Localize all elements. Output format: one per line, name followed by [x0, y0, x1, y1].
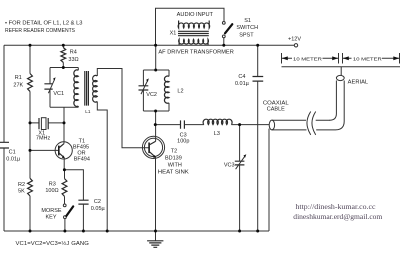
capacitor C4 — [257, 45, 259, 76]
wire emitter branch to R3 — [64, 170, 66, 204]
svg-text:http://dinesh-kumar.co.cc: http://dinesh-kumar.co.cc — [296, 202, 377, 211]
svg-text:AERIAL: AERIAL — [348, 80, 368, 86]
svg-text:27K: 27K — [13, 82, 23, 88]
svg-text:VC1: VC1 — [53, 91, 64, 97]
aerial tube top — [336, 75, 344, 80]
transistor T2 — [142, 136, 164, 158]
svg-text:10 METER: 10 METER — [353, 56, 382, 62]
svg-text:AUDIO INPUT: AUDIO INPUT — [177, 12, 214, 18]
aerial tube elbow — [330, 81, 337, 121]
svg-text:BD139: BD139 — [165, 156, 182, 162]
svg-text:R2: R2 — [18, 182, 25, 188]
capacitor C3 — [181, 120, 185, 128]
resistor R1 — [28, 74, 33, 92]
wire collector branch T1 — [63, 107, 65, 143]
svg-text:X1: X1 — [170, 31, 177, 37]
node dots — [29, 44, 260, 233]
svg-text:0.01µ: 0.01µ — [235, 81, 250, 87]
svg-text:CABLE: CABLE — [267, 107, 285, 113]
resistor R4 — [62, 45, 64, 67]
svg-text:KEY: KEY — [45, 215, 56, 221]
wire tank2 box — [143, 70, 169, 111]
dimension arrows 10 meter — [282, 53, 400, 64]
coax break — [307, 112, 316, 135]
wire emitter to C2 — [65, 170, 84, 200]
inductor audio secondary — [179, 39, 209, 45]
svg-text:+12V: +12V — [288, 36, 301, 42]
ground — [147, 241, 163, 248]
wire top rail — [4, 44, 294, 46]
wire bottom rail — [4, 230, 269, 232]
wire T1 base lead — [30, 149, 59, 151]
svg-text:10 METER: 10 METER — [293, 56, 322, 62]
switch S1 — [222, 22, 225, 25]
svg-text:R3: R3 — [49, 182, 56, 188]
wire spine to tank2 — [155, 45, 157, 70]
node +12V terminal — [294, 44, 297, 47]
inductor L2 — [168, 70, 170, 76]
svg-text:S1: S1 — [244, 18, 251, 24]
svg-text:AF DRIVER TRANSFORMER: AF DRIVER TRANSFORMER — [158, 49, 233, 55]
capacitor VC3 — [239, 125, 241, 161]
wire left edge — [3, 45, 5, 142]
wire coax braid riser — [268, 129, 270, 231]
svg-text:VC3: VC3 — [224, 163, 235, 169]
wire spine tank2 to T2 — [155, 111, 157, 142]
capacitor C2 — [78, 200, 88, 204]
wire L1 sec top lead to T2 base — [97, 69, 149, 148]
crystal X1 — [39, 118, 48, 129]
svg-text:SPST: SPST — [239, 32, 254, 38]
svg-text:COAXIAL: COAXIAL — [263, 101, 289, 107]
svg-text:5K: 5K — [18, 189, 25, 195]
svg-text:C4: C4 — [238, 74, 245, 80]
resistor R2 — [28, 178, 33, 196]
morse key — [63, 204, 66, 207]
svg-text:VC1=VC2=VC3=½J GANG: VC1=VC2=VC3=½J GANG — [16, 240, 90, 247]
wire transformer box — [156, 8, 225, 45]
transistor T1 — [55, 142, 72, 159]
inductor audio primary — [178, 21, 210, 29]
svg-text:100p: 100p — [177, 139, 189, 145]
coax cable cylinder — [269, 120, 274, 130]
svg-text:BF494: BF494 — [74, 157, 90, 163]
svg-text:SWITCH: SWITCH — [236, 25, 258, 31]
wire C3 branch — [155, 124, 180, 126]
capacitor VC2 — [139, 86, 149, 90]
svg-text:• FOR DETAIL OF L1, L2 & L3: • FOR DETAIL OF L1, L2 & L3 — [5, 21, 83, 27]
wire L1 sec bottom lead to ground rail — [97, 102, 107, 232]
svg-text:HEAT SINK: HEAT SINK — [158, 170, 189, 176]
svg-text:C2: C2 — [94, 199, 101, 205]
svg-text:WITH: WITH — [168, 163, 182, 169]
svg-text:C3: C3 — [180, 132, 187, 138]
wire L3 to coax — [231, 124, 269, 126]
svg-text:L2: L2 — [177, 89, 183, 95]
svg-text:OR: OR — [77, 150, 85, 156]
svg-text:MORSE: MORSE — [41, 208, 62, 214]
svg-text:VC2: VC2 — [146, 92, 157, 98]
core L1 — [85, 71, 89, 106]
svg-text:33Ω: 33Ω — [68, 57, 78, 63]
wire aerial — [282, 66, 400, 68]
capacitor VC1 — [44, 84, 52, 89]
svg-text:T2: T2 — [171, 149, 177, 155]
wire R1/R2 branch verticals — [29, 45, 31, 231]
svg-text:L3: L3 — [214, 131, 220, 137]
svg-text:C1: C1 — [9, 150, 16, 156]
svg-text:L1: L1 — [85, 109, 91, 114]
resistor R3 — [62, 179, 67, 197]
core X1 — [178, 31, 209, 35]
svg-text:R4: R4 — [70, 50, 77, 56]
inductor L1 secondary — [93, 75, 98, 102]
svg-text:7MHz: 7MHz — [36, 135, 51, 141]
svg-text:REFER READER COMMENTS: REFER READER COMMENTS — [5, 28, 75, 34]
inductor L1 primary — [77, 68, 79, 71]
crystal X1 leads — [30, 122, 64, 124]
capacitor C1 — [0, 142, 9, 148]
svg-text:R1: R1 — [15, 75, 22, 81]
svg-text:0.05µ: 0.05µ — [91, 206, 106, 212]
svg-text:dineshkumar.erd@gmail.com: dineshkumar.erd@gmail.com — [293, 212, 382, 221]
wire aerial feeder — [340, 67, 342, 76]
svg-text:0.01µ: 0.01µ — [6, 157, 21, 163]
svg-text:100Ω: 100Ω — [45, 188, 58, 194]
inductor L3 — [203, 119, 232, 124]
wire tank1 box — [50, 68, 78, 108]
